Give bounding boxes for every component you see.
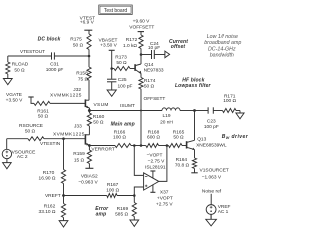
supply VBIAS2 (78, 168, 98, 185)
svg-text:J33: J33 (74, 124, 82, 130)
ground VSOURCE (3, 163, 12, 169)
svg-text:ISUMT: ISUMT (120, 103, 135, 109)
svg-text:VTESTOUT: VTESTOUT (20, 49, 45, 54)
wire Q14 emitter (140, 74, 142, 78)
resistor R158 (76, 67, 91, 82)
resistor R166 (113, 129, 131, 147)
opamp top supply (150, 171, 155, 178)
svg-text:broadband amp: broadband amp (204, 40, 241, 46)
wire RSOURCE to VTESTIN (44, 138, 64, 140)
svg-text:R174: R174 (144, 78, 156, 84)
svg-text:R164: R164 (176, 157, 188, 163)
wire to R168 (141, 145, 146, 147)
label current offset (169, 39, 188, 50)
resistor R164 (175, 157, 197, 169)
node VBASET junction (110, 67, 113, 70)
wire Q14 collector (136, 55, 141, 66)
node ISUMT label (120, 103, 135, 109)
wire R166 to opamp node (131, 145, 134, 147)
wire to R173 (112, 68, 114, 70)
svg-text:R168: R168 (148, 129, 160, 135)
resistor RLOAD (6, 62, 29, 74)
wire VERRORT (89, 146, 115, 153)
resistor R167 (106, 182, 119, 198)
svg-text:VREF: VREF (218, 204, 231, 210)
label Main amp (111, 122, 135, 128)
svg-text:100 pF: 100 pF (118, 84, 133, 90)
svg-text:XVMMK1225: XVMMK1225 (53, 131, 85, 137)
ground VREF (206, 214, 217, 226)
svg-text:1000 pF: 1000 pF (46, 67, 64, 73)
svg-text:R160: R160 (93, 114, 105, 120)
svg-text:20 nH: 20 nH (160, 119, 173, 125)
svg-text:−2.75 V: −2.75 V (148, 158, 165, 164)
wire VTEST stem (88, 30, 90, 34)
node VERROR junction (88, 144, 91, 147)
svg-text:VREFT: VREFT (45, 193, 61, 199)
wire ISUMT bus (89, 110, 162, 112)
svg-text:X37: X37 (160, 190, 169, 196)
svg-text:R161: R161 (37, 108, 49, 114)
svg-text:C31: C31 (50, 61, 59, 67)
resistor RSOURCE (28, 137, 44, 141)
wire C23 to R171 (214, 110, 223, 112)
supply VOFFSETT (129, 19, 154, 32)
wire R159 to VBIAS2 (88, 164, 90, 169)
wire node to R169 (133, 196, 135, 203)
svg-text:R159: R159 (73, 151, 85, 157)
svg-text:−1.063 V: −1.063 V (202, 175, 222, 181)
wire VSOURCE drop (6, 139, 8, 150)
resistor R161 (34, 101, 50, 119)
wire noise stem (210, 194, 212, 205)
svg-text:RSOURCE: RSOURCE (19, 123, 43, 129)
resistor R162 (39, 204, 66, 218)
svg-text:100 Ω: 100 Ω (106, 187, 119, 193)
svg-text:50 Ω: 50 Ω (25, 129, 36, 135)
wire opamp plus input (134, 187, 143, 196)
wire node to C24 (141, 54, 151, 56)
node VREFT (45, 193, 65, 199)
capacitor C24 (148, 41, 160, 59)
svg-text:50 Ω: 50 Ω (14, 67, 25, 73)
svg-text:VOFFSETT: VOFFSETT (129, 24, 154, 30)
resistor R159 (73, 150, 91, 164)
supply VTEST (80, 15, 96, 30)
wire between dots (134, 145, 140, 147)
wire C25 stem (111, 69, 113, 79)
capacitor C23 (204, 107, 219, 130)
svg-text:AC 2: AC 2 (17, 154, 28, 160)
wire J33 to R159 (88, 146, 90, 151)
svg-text:DC block: DC block (38, 37, 61, 43)
inductor L19 (160, 108, 180, 126)
svg-text:1.0 kΩ: 1.0 kΩ (123, 43, 137, 49)
capacitor C31 (46, 52, 64, 73)
svg-text:XVMMK1225: XVMMK1225 (50, 92, 82, 98)
svg-text:100 Ω: 100 Ω (113, 135, 126, 141)
svg-text:33.10 Ω: 33.10 Ω (39, 209, 56, 215)
transistor J33 (53, 124, 89, 146)
svg-text:C23: C23 (207, 118, 216, 124)
resistor R165 (169, 129, 185, 147)
wire R160 top (88, 111, 90, 114)
ground R162 (59, 221, 68, 227)
svg-text:R166: R166 (114, 129, 126, 135)
svg-text:+3.50 V: +3.50 V (100, 42, 117, 48)
svg-text:VERRORT: VERRORT (91, 147, 114, 153)
svg-text:R167: R167 (107, 182, 119, 188)
wire VREF to gnd (210, 214, 212, 219)
svg-text:J32: J32 (73, 87, 81, 93)
resistor R174 (139, 78, 156, 90)
svg-text:RLOAD: RLOAD (12, 62, 29, 68)
label -VOPT (145, 152, 166, 170)
label Error amp (95, 206, 109, 218)
wire opamp minus input (134, 146, 143, 176)
svg-text:L19: L19 (162, 113, 170, 119)
source VSOURCE (2, 149, 35, 160)
svg-text:C25: C25 (118, 77, 127, 83)
svg-text:16.90 Ω: 16.90 Ω (39, 175, 56, 181)
label Noise ref (202, 189, 222, 195)
svg-text:R175: R175 (70, 37, 82, 43)
wire VOFFSETT stem (140, 32, 142, 35)
node opamp plus (133, 194, 136, 197)
wire R165 to Q13 base (182, 145, 186, 147)
svg-text:50 Ω: 50 Ω (116, 60, 127, 66)
wire VSOURCE top (7, 138, 28, 140)
wire OFFSETT column (140, 89, 142, 146)
label X37 +VOPT (156, 190, 173, 208)
node VTESTOUT (20, 49, 45, 54)
transistor Q14 (135, 62, 164, 74)
wire VSOURCE to gnd (6, 159, 8, 163)
wire R160 to J33 (88, 126, 90, 135)
resistor R160 (87, 113, 104, 126)
wire VGATE stem (31, 97, 34, 103)
ground R169 (130, 220, 139, 226)
svg-text:50 Ω: 50 Ω (73, 43, 84, 49)
supply VBASET (99, 37, 118, 50)
svg-text:Lowpass filter: Lowpass filter (175, 83, 212, 89)
supply VGATE (6, 92, 34, 104)
svg-text:+9.60 V: +9.60 V (133, 19, 150, 25)
svg-text:amp: amp (96, 212, 107, 218)
svg-text:R173: R173 (115, 55, 127, 61)
wire RLOAD drop (7, 56, 9, 62)
svg-text:10 pF: 10 pF (148, 45, 160, 51)
svg-text:ISL28191: ISL28191 (145, 164, 166, 170)
resistor R171 (223, 93, 237, 112)
svg-text:50 Ω: 50 Ω (173, 135, 184, 141)
wire L19 to HF node (180, 110, 195, 112)
opamp bottom supply (150, 185, 155, 193)
wire VTESTOUT left (8, 55, 52, 57)
wire RLOAD to gnd (7, 74, 9, 79)
resistor R168 (146, 129, 161, 147)
wire R162 to gnd (63, 218, 65, 221)
node OFFSETT label (144, 96, 166, 102)
ground R171 (236, 113, 244, 119)
svg-text:offset: offset (171, 44, 186, 50)
node opamp output (166, 144, 169, 147)
wire HF to C23 (195, 110, 208, 112)
label BW driver (222, 134, 249, 140)
wire C24 to arrow (155, 54, 165, 56)
svg-text:+3.50 V: +3.50 V (6, 97, 23, 103)
wire R158 to J32 (88, 80, 90, 100)
resistor R169 (115, 203, 136, 218)
svg-text:100 pF: 100 pF (204, 124, 219, 130)
svg-text:−0.963 V: −0.963 V (78, 179, 98, 185)
resistor R173 (114, 55, 130, 71)
wire R170 to VREFT (63, 184, 65, 196)
node OFFSETT bottom (140, 144, 143, 147)
op-amp X37 (144, 173, 159, 190)
wire R167 to opamp (117, 195, 134, 197)
svg-text:Q14: Q14 (144, 62, 153, 68)
wire R164 to V1SOURCET (194, 169, 196, 173)
ground C25 (107, 90, 116, 96)
svg-text:75 Ω: 75 Ω (78, 76, 89, 82)
svg-text:+6.9 V: +6.9 V (80, 20, 95, 26)
wire R175 to node (88, 50, 90, 57)
wire Q13 emitter (194, 150, 196, 158)
ground RLOAD (3, 79, 12, 85)
svg-text:15 Ω: 15 Ω (74, 157, 85, 163)
node current offset junction (140, 53, 143, 56)
svg-text:50 Ω: 50 Ω (144, 83, 155, 89)
resistor R172 (123, 35, 143, 49)
wire dot3 to R165 (167, 145, 169, 147)
wire R173 to Q14 base (130, 68, 135, 70)
wire opamp output (159, 146, 167, 182)
wire VTESTOUT right (55, 55, 89, 57)
svg-text:bandwidth: bandwidth (210, 52, 234, 58)
svg-text:100 Ω: 100 Ω (223, 98, 236, 104)
supply RSOURCE label (19, 123, 43, 135)
wire HF node to Q13 (194, 111, 196, 141)
svg-text:R172: R172 (126, 37, 138, 43)
svg-text:V1SOURCET: V1SOURCET (200, 167, 229, 173)
svg-text:VSUM: VSUM (94, 102, 109, 108)
svg-text:VTESTIN: VTESTIN (40, 141, 61, 147)
svg-text:70.8 Ω: 70.8 Ω (175, 162, 190, 168)
wire R161 to J32 gate (50, 102, 85, 104)
svg-text:R169: R169 (117, 206, 129, 212)
svg-text:NE97833: NE97833 (144, 67, 164, 73)
wire VTESTIN to R170 (63, 139, 65, 170)
wire node to R158 (88, 56, 90, 67)
wire VBASET stem (111, 50, 113, 68)
svg-text:R158: R158 (76, 70, 88, 76)
svg-text:Noise ref: Noise ref (202, 189, 222, 195)
transistor Q13 (187, 137, 227, 150)
node offset crossing (140, 110, 142, 112)
svg-text:50 Ω: 50 Ω (93, 119, 104, 125)
svg-text:600 Ω: 600 Ω (147, 135, 160, 141)
svg-text:VBIAS2: VBIAS2 (81, 173, 98, 179)
svg-text:XNE68539WL: XNE68539WL (196, 143, 227, 149)
capacitor C25 (107, 77, 133, 89)
test board label box (99, 5, 132, 15)
svg-text:R162: R162 (44, 204, 56, 210)
wire R168 to output node (159, 145, 167, 147)
label HF block (175, 78, 212, 90)
svg-text:+VOPT: +VOPT (157, 196, 173, 202)
wire R171 to gnd (236, 111, 240, 114)
supply V1SOURCET (191, 167, 229, 180)
node VTESTOUT junction (88, 55, 91, 58)
annotation low 1/f noise (204, 34, 241, 58)
svg-text:VGATE: VGATE (6, 92, 22, 98)
label DC block (38, 37, 61, 43)
node opamp minus (133, 144, 136, 147)
svg-text:R165: R165 (173, 129, 185, 135)
source VREF (206, 204, 230, 215)
wire VTESTIN to J33 gate (64, 138, 86, 140)
svg-text:+2.75 V: +2.75 V (156, 202, 173, 208)
wire R172 to node (140, 49, 142, 55)
transistor J32 (50, 87, 90, 111)
svg-text:−VOPT: −VOPT (147, 152, 163, 158)
wire R169 to gnd (133, 217, 135, 221)
node VTESTIN (40, 137, 65, 147)
svg-text:BW driver: BW driver (222, 134, 249, 140)
svg-text:VBASET: VBASET (99, 37, 118, 43)
svg-text:Q13: Q13 (197, 137, 206, 143)
resistor R170 (39, 170, 66, 184)
svg-text:R170: R170 (43, 170, 55, 176)
svg-text:Test board: Test board (104, 8, 128, 14)
wire VREFT to R162 (63, 196, 65, 204)
svg-text:OFFSETT: OFFSETT (144, 96, 166, 102)
node VSUM (88, 102, 109, 112)
resistor R175 (70, 34, 91, 50)
node HF junction (193, 109, 196, 112)
current offset arrow (165, 51, 170, 58)
wire C25 to gnd (111, 82, 113, 90)
svg-text:50 Ω: 50 Ω (38, 114, 49, 120)
svg-text:AC 1: AC 1 (218, 209, 229, 215)
svg-text:585 Ω: 585 Ω (115, 212, 128, 218)
wire VREFT bus (64, 195, 107, 197)
svg-text:Main amp: Main amp (111, 122, 135, 128)
